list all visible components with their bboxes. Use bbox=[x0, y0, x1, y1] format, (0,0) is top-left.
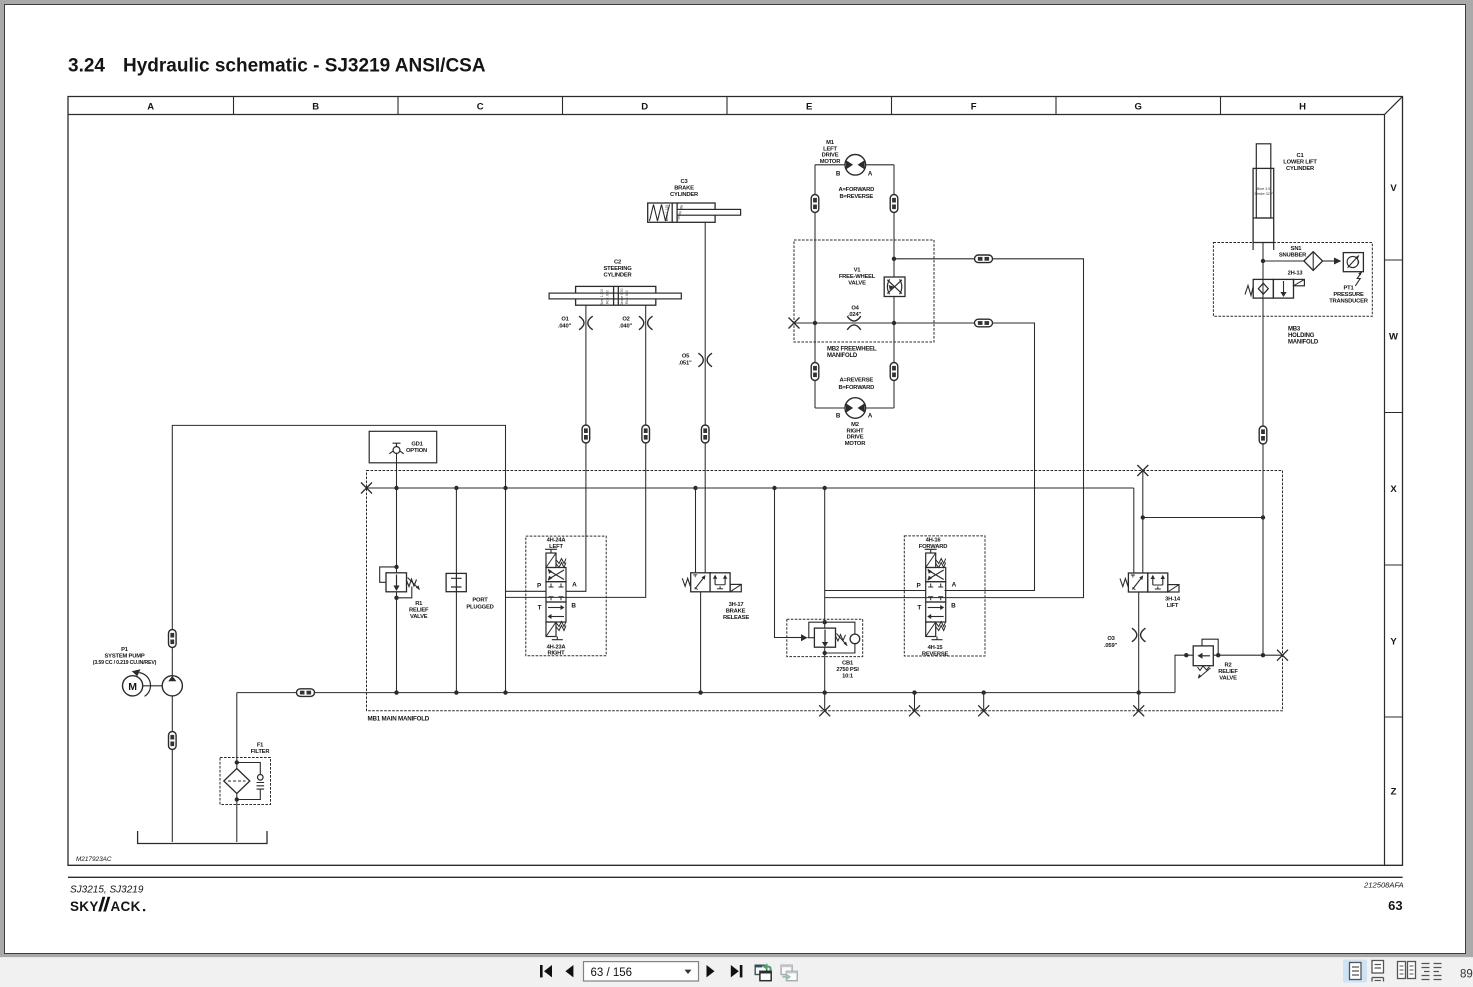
svg-text:CB1: CB1 bbox=[842, 661, 854, 667]
wire: link to holding manifold leg bbox=[1143, 517, 1263, 519]
svg-text:VALVE: VALVE bbox=[410, 614, 428, 620]
wire: CB1 pilot from bus bbox=[775, 488, 802, 638]
wire: drive A-side branch to CB1 via 4H-16 bbox=[825, 259, 1084, 598]
solenoid valve 4H-16 / 4H-15 drive bbox=[904, 536, 985, 658]
svg-text:STEERING: STEERING bbox=[603, 266, 632, 272]
svg-text:4H-23A: 4H-23A bbox=[547, 644, 567, 650]
svg-text:T: T bbox=[538, 604, 542, 611]
solenoid valve 4H-24A / 4H-23A steering bbox=[526, 536, 606, 657]
manifold MB3 HOLDING MANIFOLD bbox=[1213, 243, 1372, 346]
junction O3 drain on tank bus bbox=[1137, 690, 1141, 694]
wire: 3H-14 drain through O3 bbox=[1138, 592, 1140, 693]
junction drive A branch bbox=[892, 257, 896, 261]
svg-text:B: B bbox=[571, 603, 576, 610]
svg-text:10:1: 10:1 bbox=[842, 674, 854, 680]
svg-text:3.24: 3.24 bbox=[68, 56, 105, 77]
zoom level 89 bbox=[1460, 969, 1473, 981]
svg-text:B=REVERSE: B=REVERSE bbox=[840, 194, 874, 200]
junction port T2 on tank bus bbox=[912, 690, 916, 694]
junction SN1 tap bbox=[1261, 259, 1265, 263]
svg-text:B: B bbox=[836, 413, 841, 420]
page number box 63 / 156 bbox=[584, 962, 699, 981]
viewer toolbar bbox=[0, 957, 1473, 987]
svg-text:B: B bbox=[312, 101, 319, 112]
svg-text:B=FORWARD: B=FORWARD bbox=[838, 385, 874, 391]
svg-text:M2: M2 bbox=[851, 422, 859, 428]
svg-text:X: X bbox=[1390, 484, 1397, 495]
wire: R2 line to manifold edge bbox=[1175, 655, 1283, 692]
junction 3H-17 feed on pressure bus bbox=[693, 486, 697, 490]
last page button bbox=[731, 965, 743, 977]
junction R2 line bbox=[1261, 653, 1265, 657]
svg-text:4H-16: 4H-16 bbox=[926, 538, 942, 544]
svg-text:A=REVERSE: A=REVERSE bbox=[840, 378, 874, 384]
wire: filter return leg bbox=[236, 693, 238, 842]
junction R1 on tank bus bbox=[394, 690, 398, 694]
junction plug port on tank bus bbox=[454, 690, 458, 694]
wire: right drive loop (M1 A / M2 A) through V1 bbox=[865, 165, 894, 408]
port marker MB2 edge bbox=[789, 318, 800, 329]
orifice O5 .051 bbox=[678, 353, 712, 367]
two page continuous button bbox=[1422, 961, 1442, 983]
single page mode button (active) bbox=[1343, 960, 1367, 983]
electric motor M (pump drive) bbox=[123, 669, 163, 696]
svg-text:A: A bbox=[952, 581, 957, 588]
previous view button bbox=[755, 963, 771, 980]
svg-text:.040": .040" bbox=[619, 324, 632, 330]
svg-text:RELIEF: RELIEF bbox=[409, 608, 429, 614]
svg-text:T: T bbox=[917, 604, 921, 611]
svg-text:BRAKE: BRAKE bbox=[726, 608, 746, 614]
svg-text:B: B bbox=[951, 603, 956, 610]
port marker tank port 1 bbox=[819, 705, 830, 716]
svg-text:PRESSURE: PRESSURE bbox=[1333, 292, 1364, 298]
svg-text:MB1 MAIN MANIFOLD: MB1 MAIN MANIFOLD bbox=[368, 716, 430, 723]
port marker tank port 4 bbox=[1133, 705, 1144, 716]
drawing border frame with column headers bbox=[68, 97, 1403, 866]
filter F1 bbox=[220, 743, 271, 805]
junction port T3 on tank bus bbox=[982, 690, 986, 694]
svg-text:F: F bbox=[971, 101, 977, 112]
svg-text:3H-14: 3H-14 bbox=[1165, 596, 1181, 602]
junction CB1 pilot on pressure bus bbox=[772, 486, 776, 490]
svg-text:Z: Z bbox=[1391, 786, 1397, 797]
svg-text:MANIFOLD: MANIFOLD bbox=[1288, 340, 1319, 346]
svg-text:MOTOR: MOTOR bbox=[845, 441, 866, 447]
svg-text:CYLINDER: CYLINDER bbox=[670, 192, 699, 198]
page number 63 bbox=[1388, 898, 1402, 913]
svg-text:LOWER LIFT: LOWER LIFT bbox=[1283, 160, 1317, 166]
svg-text:SYSTEM PUMP: SYSTEM PUMP bbox=[105, 654, 145, 660]
junction 4H-16 P on pressure bus bbox=[823, 486, 827, 490]
svg-text:VALVE: VALVE bbox=[1219, 676, 1237, 682]
quick disconnect coupler on M2 left line bbox=[811, 363, 819, 381]
footer doc code 212508AFA bbox=[1363, 881, 1404, 890]
svg-text:P1: P1 bbox=[121, 647, 129, 653]
svg-text:SNUBBER: SNUBBER bbox=[1279, 252, 1307, 258]
svg-text:RELIEF: RELIEF bbox=[1218, 669, 1238, 675]
quick disconnect GD1 OPTION bbox=[369, 431, 437, 463]
next view button (disabled) bbox=[781, 965, 797, 981]
quick disconnect coupler on O2 line bbox=[642, 425, 650, 443]
svg-text:TRANSDUCER: TRANSDUCER bbox=[1329, 299, 1369, 305]
svg-text:MOTOR: MOTOR bbox=[820, 159, 841, 165]
plugged port bbox=[446, 573, 494, 610]
wire: 3H-17 drain to tank bus bbox=[700, 592, 702, 693]
relief valve R2 bbox=[1184, 639, 1238, 681]
wire: freewheel bleed line with O4 bbox=[794, 322, 894, 324]
svg-text:CYLINDER: CYLINDER bbox=[1286, 166, 1315, 172]
wire: pump suction to tank bbox=[171, 696, 173, 842]
footer model text bbox=[70, 884, 144, 895]
wire: C1 cylinder / 2H-13 / R2 leg bbox=[1262, 243, 1264, 656]
svg-text:.024": .024" bbox=[848, 312, 861, 318]
svg-text:(3.59 CC / 0.219 CU.IN/REV): (3.59 CC / 0.219 CU.IN/REV) bbox=[93, 660, 157, 666]
solenoid valve 2H-13 holding bbox=[1245, 271, 1304, 299]
svg-text:Rod .630: Rod .630 bbox=[625, 290, 629, 304]
solenoid valve 3H-17 BRAKE RELEASE bbox=[682, 573, 749, 621]
snubber SN1 bbox=[1263, 246, 1323, 271]
label A=REVERSE B=FORWARD bbox=[838, 378, 874, 391]
junction plug port on pressure bus bbox=[454, 486, 458, 490]
counterbalance valve CB1 bbox=[787, 619, 863, 679]
svg-text:LEFT: LEFT bbox=[823, 146, 837, 152]
svg-text:C2: C2 bbox=[614, 260, 621, 266]
wire: manifold bottom tank ports bbox=[915, 693, 1139, 711]
svg-text:63: 63 bbox=[1388, 898, 1402, 913]
svg-text:Bore 1.500: Bore 1.500 bbox=[600, 289, 604, 306]
junction O4 line left bbox=[813, 321, 817, 325]
quick disconnect coupler on M1 left line bbox=[811, 195, 819, 213]
quick disconnect coupler on drive branch line bbox=[975, 255, 993, 263]
junction O4 line right bbox=[892, 321, 896, 325]
pressure transducer PT1 bbox=[1323, 253, 1369, 305]
svg-text:Bore 1.125: Bore 1.125 bbox=[665, 205, 669, 222]
motor M1 LEFT DRIVE MOTOR bbox=[820, 140, 873, 178]
drawing number M217923AC bbox=[76, 856, 112, 863]
port marker tank port 2 bbox=[909, 705, 920, 716]
svg-text:V1: V1 bbox=[854, 268, 862, 274]
svg-text:SJ3215, SJ3219: SJ3215, SJ3219 bbox=[70, 884, 144, 895]
svg-text:RELEASE: RELEASE bbox=[723, 615, 749, 621]
svg-text:4H-24A: 4H-24A bbox=[547, 538, 567, 544]
port marker tank port 3 bbox=[978, 705, 989, 716]
svg-text:V: V bbox=[1390, 183, 1397, 194]
svg-text:MB2 FREEWHEEL: MB2 FREEWHEEL bbox=[827, 347, 877, 353]
svg-text:Stroke 5.50: Stroke 5.50 bbox=[620, 288, 624, 305]
svg-text:FILTER: FILTER bbox=[251, 749, 271, 755]
svg-text:A: A bbox=[572, 581, 577, 588]
svg-text:O1: O1 bbox=[561, 317, 569, 323]
svg-text:A: A bbox=[868, 413, 873, 420]
svg-text:Rod .630: Rod .630 bbox=[606, 290, 610, 304]
quick disconnect coupler on tank return line bbox=[297, 689, 315, 697]
svg-text:ACK: ACK bbox=[111, 899, 141, 914]
svg-text:O4: O4 bbox=[851, 306, 859, 312]
svg-text:212508AFA: 212508AFA bbox=[1363, 881, 1404, 890]
svg-text:M217923AC: M217923AC bbox=[76, 856, 112, 863]
cylinder C1 LOWER LIFT CYLINDER bbox=[1253, 144, 1317, 250]
svg-text:.059": .059" bbox=[1104, 643, 1117, 649]
wire: plugged port branch bbox=[455, 488, 457, 693]
section title bbox=[68, 56, 486, 77]
svg-text:Stroke 32.7: Stroke 32.7 bbox=[1254, 192, 1273, 196]
svg-text:C1: C1 bbox=[1296, 153, 1304, 159]
pump P1 SYSTEM PUMP bbox=[93, 647, 183, 696]
svg-text:PT1: PT1 bbox=[1343, 286, 1354, 292]
svg-text:G: G bbox=[1135, 101, 1142, 112]
svg-text:Y: Y bbox=[1390, 636, 1397, 647]
svg-text:HOLDING: HOLDING bbox=[1288, 333, 1315, 339]
tank symbol bbox=[138, 831, 267, 844]
svg-text:.040": .040" bbox=[558, 324, 571, 330]
svg-text:D: D bbox=[641, 101, 648, 112]
SKYJACK logo bbox=[70, 897, 145, 914]
quick disconnect coupler on M2 right line bbox=[890, 363, 898, 381]
manifold MB1 MAIN MANIFOLD bbox=[367, 471, 1283, 723]
svg-text:C: C bbox=[477, 101, 484, 112]
wire: left drive loop (M1 B / M2 B) bbox=[815, 165, 845, 408]
svg-text:R2: R2 bbox=[1224, 663, 1231, 669]
svg-text:P: P bbox=[916, 582, 921, 589]
svg-text:4H-15: 4H-15 bbox=[928, 645, 944, 651]
wire: GD1 / R1 branch bbox=[396, 453, 398, 692]
footer rule bbox=[68, 876, 1403, 878]
wire: bus feed to 3H-17 bbox=[695, 488, 697, 573]
junction CB1 outlet on tank bus bbox=[823, 690, 827, 694]
wire: steering cylinder left port / O1 to 4H-24A port A bbox=[566, 305, 586, 591]
svg-text:DRIVE: DRIVE bbox=[822, 153, 839, 159]
junction 3H-17 drain on tank bus bbox=[698, 690, 702, 694]
svg-text:2H-13: 2H-13 bbox=[1288, 271, 1304, 277]
quick disconnect coupler on C1 lift line bbox=[1259, 426, 1267, 444]
wire: brake cylinder / O5 line to 3H-17 bbox=[704, 222, 706, 573]
previous page button bbox=[565, 965, 573, 977]
wire: pump pressure line up and across to manifold bbox=[172, 425, 505, 692]
quick disconnect coupler on M1 right line bbox=[890, 195, 898, 213]
svg-text:.051": .051" bbox=[678, 361, 691, 367]
quick disconnect coupler on O5 line bbox=[701, 425, 709, 443]
svg-text:P: P bbox=[537, 582, 542, 589]
first page button bbox=[540, 965, 552, 977]
motor M2 RIGHT DRIVE MOTOR bbox=[836, 398, 873, 447]
wire: tank return bus bbox=[237, 692, 1175, 694]
svg-text:MANIFOLD: MANIFOLD bbox=[827, 353, 858, 359]
svg-text:Bore 3.5: Bore 3.5 bbox=[1257, 187, 1271, 191]
quick disconnect coupler on pump suction line bbox=[169, 732, 177, 750]
svg-text:A: A bbox=[868, 171, 873, 178]
svg-text:F1: F1 bbox=[257, 743, 264, 749]
quick disconnect coupler on pump pressure line bbox=[169, 630, 177, 648]
port marker MB1 top edge bbox=[1137, 465, 1148, 476]
svg-text:O5: O5 bbox=[682, 354, 690, 360]
manifold MB2 FREEWHEEL MANIFOLD bbox=[794, 240, 934, 359]
svg-text:REVERSE: REVERSE bbox=[922, 651, 949, 657]
wire: pressure bus inside MB1 bbox=[367, 488, 1134, 573]
svg-text:A: A bbox=[147, 101, 154, 112]
quick disconnect coupler on O1 line bbox=[582, 425, 590, 443]
cylinder C3 BRAKE CYLINDER bbox=[648, 179, 741, 222]
junction R1 on pressure bus bbox=[394, 486, 398, 490]
svg-text:BRAKE: BRAKE bbox=[674, 186, 694, 192]
port marker MB1 right edge bbox=[1277, 650, 1288, 661]
junction lift link right bbox=[1261, 515, 1265, 519]
two page mode button bbox=[1398, 962, 1416, 979]
svg-text:OPTION: OPTION bbox=[406, 448, 427, 454]
svg-text:B: B bbox=[836, 171, 841, 178]
label A=FORWARD B=REVERSE bbox=[838, 187, 874, 200]
junction lift link left bbox=[1141, 515, 1145, 519]
svg-text:VALVE: VALVE bbox=[848, 281, 866, 287]
continuous mode button bbox=[1372, 961, 1384, 982]
svg-text:E: E bbox=[806, 101, 812, 112]
port marker pressure bus inlet bbox=[361, 483, 372, 494]
orifice O4 .024 bbox=[847, 306, 861, 330]
wire: O4 branch to 4H-16 port A bbox=[894, 323, 1035, 591]
svg-text:C3: C3 bbox=[680, 179, 688, 185]
wire: CB1 outlet to tank bus and bottom port bbox=[824, 622, 826, 711]
svg-text:FREE-WHEEL: FREE-WHEEL bbox=[839, 274, 876, 280]
svg-text:O2: O2 bbox=[622, 317, 629, 323]
junction supply on pressure bus bbox=[503, 486, 507, 490]
svg-text:M1: M1 bbox=[826, 140, 835, 146]
svg-text:W: W bbox=[1389, 332, 1398, 343]
orifice O2 .040 bbox=[619, 316, 653, 330]
svg-text:MB3: MB3 bbox=[1288, 327, 1301, 333]
svg-text:LIFT: LIFT bbox=[1167, 603, 1179, 609]
svg-text:R1: R1 bbox=[415, 601, 423, 607]
svg-text:PORT: PORT bbox=[472, 598, 488, 604]
wire: bus to 4H-16 port P and down to CB1 bbox=[825, 488, 926, 622]
wire: lift section from top port X bbox=[1142, 471, 1144, 574]
wire: 4H-24A port P bbox=[506, 590, 547, 592]
svg-text:3H-17: 3H-17 bbox=[729, 602, 744, 608]
orifice O3 .059 bbox=[1104, 628, 1146, 649]
valve V1 FREE-WHEEL VALVE bbox=[839, 268, 905, 297]
cylinder C2 STEERING CYLINDER bbox=[549, 260, 681, 306]
svg-text:2750 PSI: 2750 PSI bbox=[836, 667, 859, 673]
next page button bbox=[707, 965, 715, 977]
svg-text:A=FORWARD: A=FORWARD bbox=[838, 187, 874, 193]
svg-text:O3: O3 bbox=[1107, 636, 1115, 642]
svg-text:H: H bbox=[1299, 101, 1306, 112]
svg-text:Hydraulic schematic - SJ3219 A: Hydraulic schematic - SJ3219 ANSI/CSA bbox=[123, 56, 486, 77]
svg-text:SN1: SN1 bbox=[1291, 246, 1303, 252]
svg-text:M: M bbox=[128, 681, 137, 693]
svg-text:RIGHT: RIGHT bbox=[547, 651, 565, 657]
solenoid valve 3H-14 LIFT bbox=[1120, 573, 1181, 609]
svg-text:CYLINDER: CYLINDER bbox=[603, 273, 632, 279]
wire: steering cylinder right port / O2 line bbox=[506, 305, 646, 597]
orifice O1 .040 bbox=[558, 316, 593, 330]
junction supply leg on tank bus bbox=[503, 690, 507, 694]
svg-text:RIGHT: RIGHT bbox=[846, 428, 864, 434]
svg-text:GD1: GD1 bbox=[411, 442, 423, 448]
svg-text:PLUGGED: PLUGGED bbox=[466, 605, 493, 611]
svg-text:SKY: SKY bbox=[70, 899, 99, 914]
relief valve R1 bbox=[380, 565, 429, 620]
svg-text:DRIVE: DRIVE bbox=[847, 435, 864, 441]
quick disconnect coupler on freewheel branch line bbox=[975, 319, 993, 327]
